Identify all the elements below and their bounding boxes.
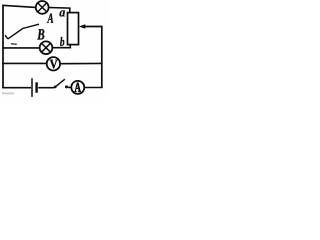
wire: lamp A to rheostat top xyxy=(49,8,70,14)
battery cell xyxy=(32,78,37,97)
terminal label b xyxy=(60,37,64,46)
switch S1 (open, row 2) xyxy=(5,24,39,44)
wire: lamp B to rheostat bottom stub xyxy=(52,44,70,48)
background xyxy=(0,0,108,99)
lamp A xyxy=(36,1,49,14)
wire: voltmeter to right vertical xyxy=(61,62,103,64)
voltmeter V xyxy=(47,57,60,70)
wire: switch S2 to ammeter xyxy=(68,86,71,88)
wire: row 3 left to voltmeter xyxy=(2,62,46,64)
wire: row 2 left to lamp B xyxy=(2,47,39,49)
wire: left vertical xyxy=(2,5,4,88)
label B (lamp B) xyxy=(37,29,44,39)
rheostat R (body) xyxy=(68,13,79,45)
wire: battery to switch S2 xyxy=(38,87,54,89)
terminal label a xyxy=(59,10,64,16)
wire: right vertical xyxy=(101,26,103,88)
label A (lamp A) xyxy=(47,13,53,22)
wire: top horizontal to lamp A xyxy=(2,5,36,7)
wire: bottom left to battery xyxy=(2,87,31,89)
switch S2 (open, bottom) xyxy=(54,79,68,88)
ammeter A xyxy=(71,81,84,94)
lamp B xyxy=(40,41,53,54)
scan smudge artifact bottom-left xyxy=(2,93,14,95)
rheostat wiper arrow xyxy=(79,24,102,29)
wire: ammeter to bottom right corner xyxy=(85,87,103,89)
